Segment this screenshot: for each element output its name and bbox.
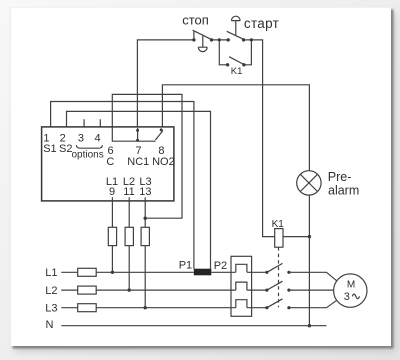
svg-text:NO2: NO2 (152, 156, 175, 168)
svg-text:11: 11 (123, 186, 134, 198)
svg-text:13: 13 (139, 186, 151, 198)
svg-text:стоп: стоп (182, 13, 209, 28)
svg-text:options: options (72, 150, 104, 161)
svg-text:C: C (106, 156, 114, 168)
svg-text:P1: P1 (179, 260, 192, 272)
svg-text:9: 9 (109, 186, 115, 198)
svg-text:N: N (46, 319, 54, 331)
svg-text:S1: S1 (43, 143, 56, 155)
svg-text:7: 7 (136, 145, 142, 157)
svg-text:L3: L3 (45, 302, 57, 314)
svg-text:4: 4 (94, 133, 100, 145)
svg-text:8: 8 (158, 145, 164, 157)
svg-text:S2: S2 (59, 143, 72, 155)
svg-text:Pre-: Pre- (328, 170, 352, 184)
svg-text:L2: L2 (45, 285, 57, 297)
svg-text:3: 3 (344, 291, 350, 303)
svg-text:старт: старт (244, 16, 279, 31)
svg-text:P2: P2 (214, 260, 227, 272)
svg-text:L1: L1 (45, 267, 57, 279)
svg-text:K1: K1 (272, 219, 285, 230)
svg-text:K1: K1 (231, 66, 243, 77)
svg-text:3: 3 (78, 133, 84, 145)
svg-text:NC1: NC1 (127, 156, 149, 168)
svg-text:6: 6 (108, 145, 114, 157)
svg-text:M: M (347, 280, 355, 291)
svg-text:alarm: alarm (328, 183, 359, 197)
